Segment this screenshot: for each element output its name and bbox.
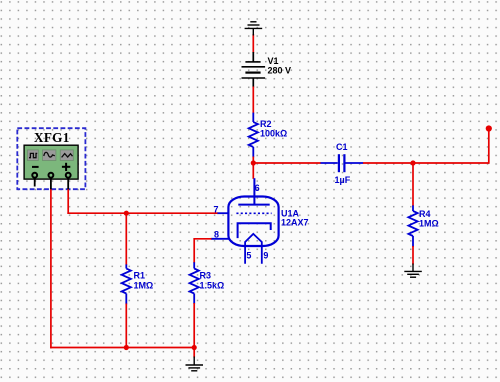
wire node out down to R4: [412, 163, 414, 206]
label 1Mohm R1: [134, 281, 154, 291]
pin label 6: [255, 183, 260, 193]
tube pin 7 stub: [217, 212, 229, 214]
resistor R2: [249, 113, 258, 158]
XFG1 minus sign: [32, 166, 39, 168]
wire battery to R2: [252, 87, 254, 114]
XFG1 plus sign: [62, 163, 70, 171]
svg-text:R3: R3: [200, 271, 212, 281]
wire node out to right riser: [413, 162, 489, 164]
wire C1 to node out: [363, 162, 413, 164]
svg-text:XFG1: XFG1: [34, 130, 70, 145]
junction node out: [410, 160, 415, 165]
junction node grid: [124, 211, 129, 216]
wire R3 to bottom rail: [193, 303, 195, 348]
wire output riser up: [488, 129, 490, 164]
wire R2 to node: [252, 157, 254, 164]
pin label 5: [246, 251, 251, 261]
junction node R1 bottom: [124, 345, 129, 350]
label R4: [419, 209, 431, 219]
XFG1 plus lead stub: [67, 178, 69, 190]
label 1.5kohm: [200, 281, 225, 291]
XFG1 button triangle wave: [60, 150, 73, 161]
junction node ground rail: [192, 345, 197, 350]
svg-text:1µF: 1µF: [335, 175, 351, 185]
wire bottom rail: [50, 347, 194, 349]
svg-text:8: 8: [214, 229, 219, 239]
ground symbol bottom: [186, 357, 204, 371]
svg-text:1MΩ: 1MΩ: [419, 219, 439, 229]
resistor R4: [408, 205, 417, 247]
wire XFG1 plus down: [67, 189, 69, 214]
tube pin 8 stub: [211, 238, 229, 240]
label U1A: [281, 209, 300, 219]
pin label 9: [263, 251, 268, 261]
wire ground to battery V1: [252, 34, 254, 53]
svg-text:1MΩ: 1MΩ: [134, 281, 154, 291]
label R3: [200, 271, 212, 281]
wire XFG1 common down: [50, 189, 52, 348]
label 1uF: [335, 175, 351, 185]
XFG1 button sine wave: [43, 150, 56, 161]
wire R3 riser: [193, 238, 195, 263]
svg-text:R1: R1: [134, 271, 146, 281]
svg-text:100kΩ: 100kΩ: [260, 129, 287, 139]
svg-text:6: 6: [255, 183, 260, 193]
wire R1 to bottom rail: [125, 304, 127, 348]
resistor R1: [122, 264, 131, 304]
svg-text:5: 5: [246, 251, 251, 261]
label XFG1: [34, 130, 70, 145]
wire node to C1: [253, 162, 321, 164]
resistor R3: [190, 262, 199, 304]
wire node grid down to R1: [125, 213, 127, 265]
open end dot output: [486, 125, 492, 131]
label 100kohm: [260, 129, 287, 139]
tube plate (anode): [238, 178, 269, 204]
label C1: [336, 142, 348, 152]
svg-text:9: 9: [263, 251, 268, 261]
tube heater filament: [245, 234, 262, 264]
label R1: [134, 271, 146, 281]
svg-text:R2: R2: [260, 119, 272, 129]
tube grid dotted line: [236, 212, 271, 214]
XFG1 dashed box: [17, 128, 85, 189]
ground symbol top (inverted): [245, 22, 263, 36]
tube U1A envelope: [228, 197, 278, 247]
svg-text:1.5kΩ: 1.5kΩ: [200, 281, 225, 291]
XFG1 terminal plus: [66, 173, 71, 178]
label 12AX7: [281, 218, 309, 228]
ground symbol R4: [404, 264, 422, 278]
svg-text:C1: C1: [336, 142, 348, 152]
pin label 7: [214, 205, 219, 215]
svg-text:V1: V1: [268, 56, 279, 66]
wire R4 to ground: [412, 246, 414, 265]
XFG1 button square wave: [27, 150, 38, 161]
wire node plate down to tube pin 6: [252, 163, 254, 179]
label R2: [260, 119, 272, 129]
junction node plate: [251, 160, 256, 165]
tube cathode: [238, 223, 271, 238]
wire tube pin 8 to R3: [194, 238, 211, 240]
svg-text:R4: R4: [419, 209, 431, 219]
XFG1 terminal minus: [32, 173, 37, 178]
wire rail to ground: [193, 348, 195, 358]
label 280 V: [268, 66, 292, 76]
XFG1 common lead stub: [50, 178, 52, 190]
capacitor C1: [321, 154, 364, 172]
pin label 8: [214, 229, 219, 239]
XFG1 minus lead stub: [34, 178, 36, 187]
XFG1 terminal common: [49, 173, 54, 178]
svg-text:12AX7: 12AX7: [281, 218, 309, 228]
XFG1 green panel: [24, 145, 78, 179]
label V1: [268, 56, 279, 66]
label 1Mohm R4: [419, 219, 439, 229]
battery V1: [242, 52, 266, 88]
wire to tube grid pin 7: [67, 212, 217, 214]
svg-text:280 V: 280 V: [268, 66, 292, 76]
